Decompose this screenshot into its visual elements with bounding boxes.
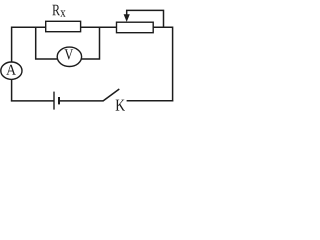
rheostat box bbox=[117, 22, 154, 33]
battery long plate bbox=[53, 92, 55, 110]
voltmeter label V bbox=[64, 49, 73, 59]
label R of Rx bbox=[52, 5, 60, 15]
left vertical wire lower bbox=[11, 79, 13, 101]
wire rheostat to right corner bbox=[153, 26, 172, 28]
switch blade bbox=[103, 89, 120, 101]
battery short plate bbox=[58, 97, 60, 104]
voltmeter ellipse bbox=[57, 47, 81, 66]
left vertical wire upper bbox=[11, 27, 13, 63]
voltmeter right wire bbox=[81, 27, 100, 59]
wire switch to right corner bbox=[127, 100, 174, 102]
bottom wire left bbox=[11, 100, 54, 102]
wire battery to switch bbox=[60, 100, 103, 102]
wire top-left horizontal bbox=[11, 26, 46, 28]
ammeter ellipse bbox=[1, 62, 22, 79]
switch label K bbox=[116, 100, 125, 111]
voltmeter branch left wire bbox=[36, 27, 59, 59]
wire resistor to rheostat bbox=[81, 26, 117, 28]
label x subscript of Rx bbox=[60, 10, 65, 16]
ammeter label A bbox=[6, 65, 16, 75]
slider arm wire bbox=[127, 10, 164, 27]
resistor R_X box bbox=[46, 21, 81, 31]
rheostat slider arrow bbox=[124, 14, 130, 22]
right vertical wire bbox=[172, 27, 174, 102]
